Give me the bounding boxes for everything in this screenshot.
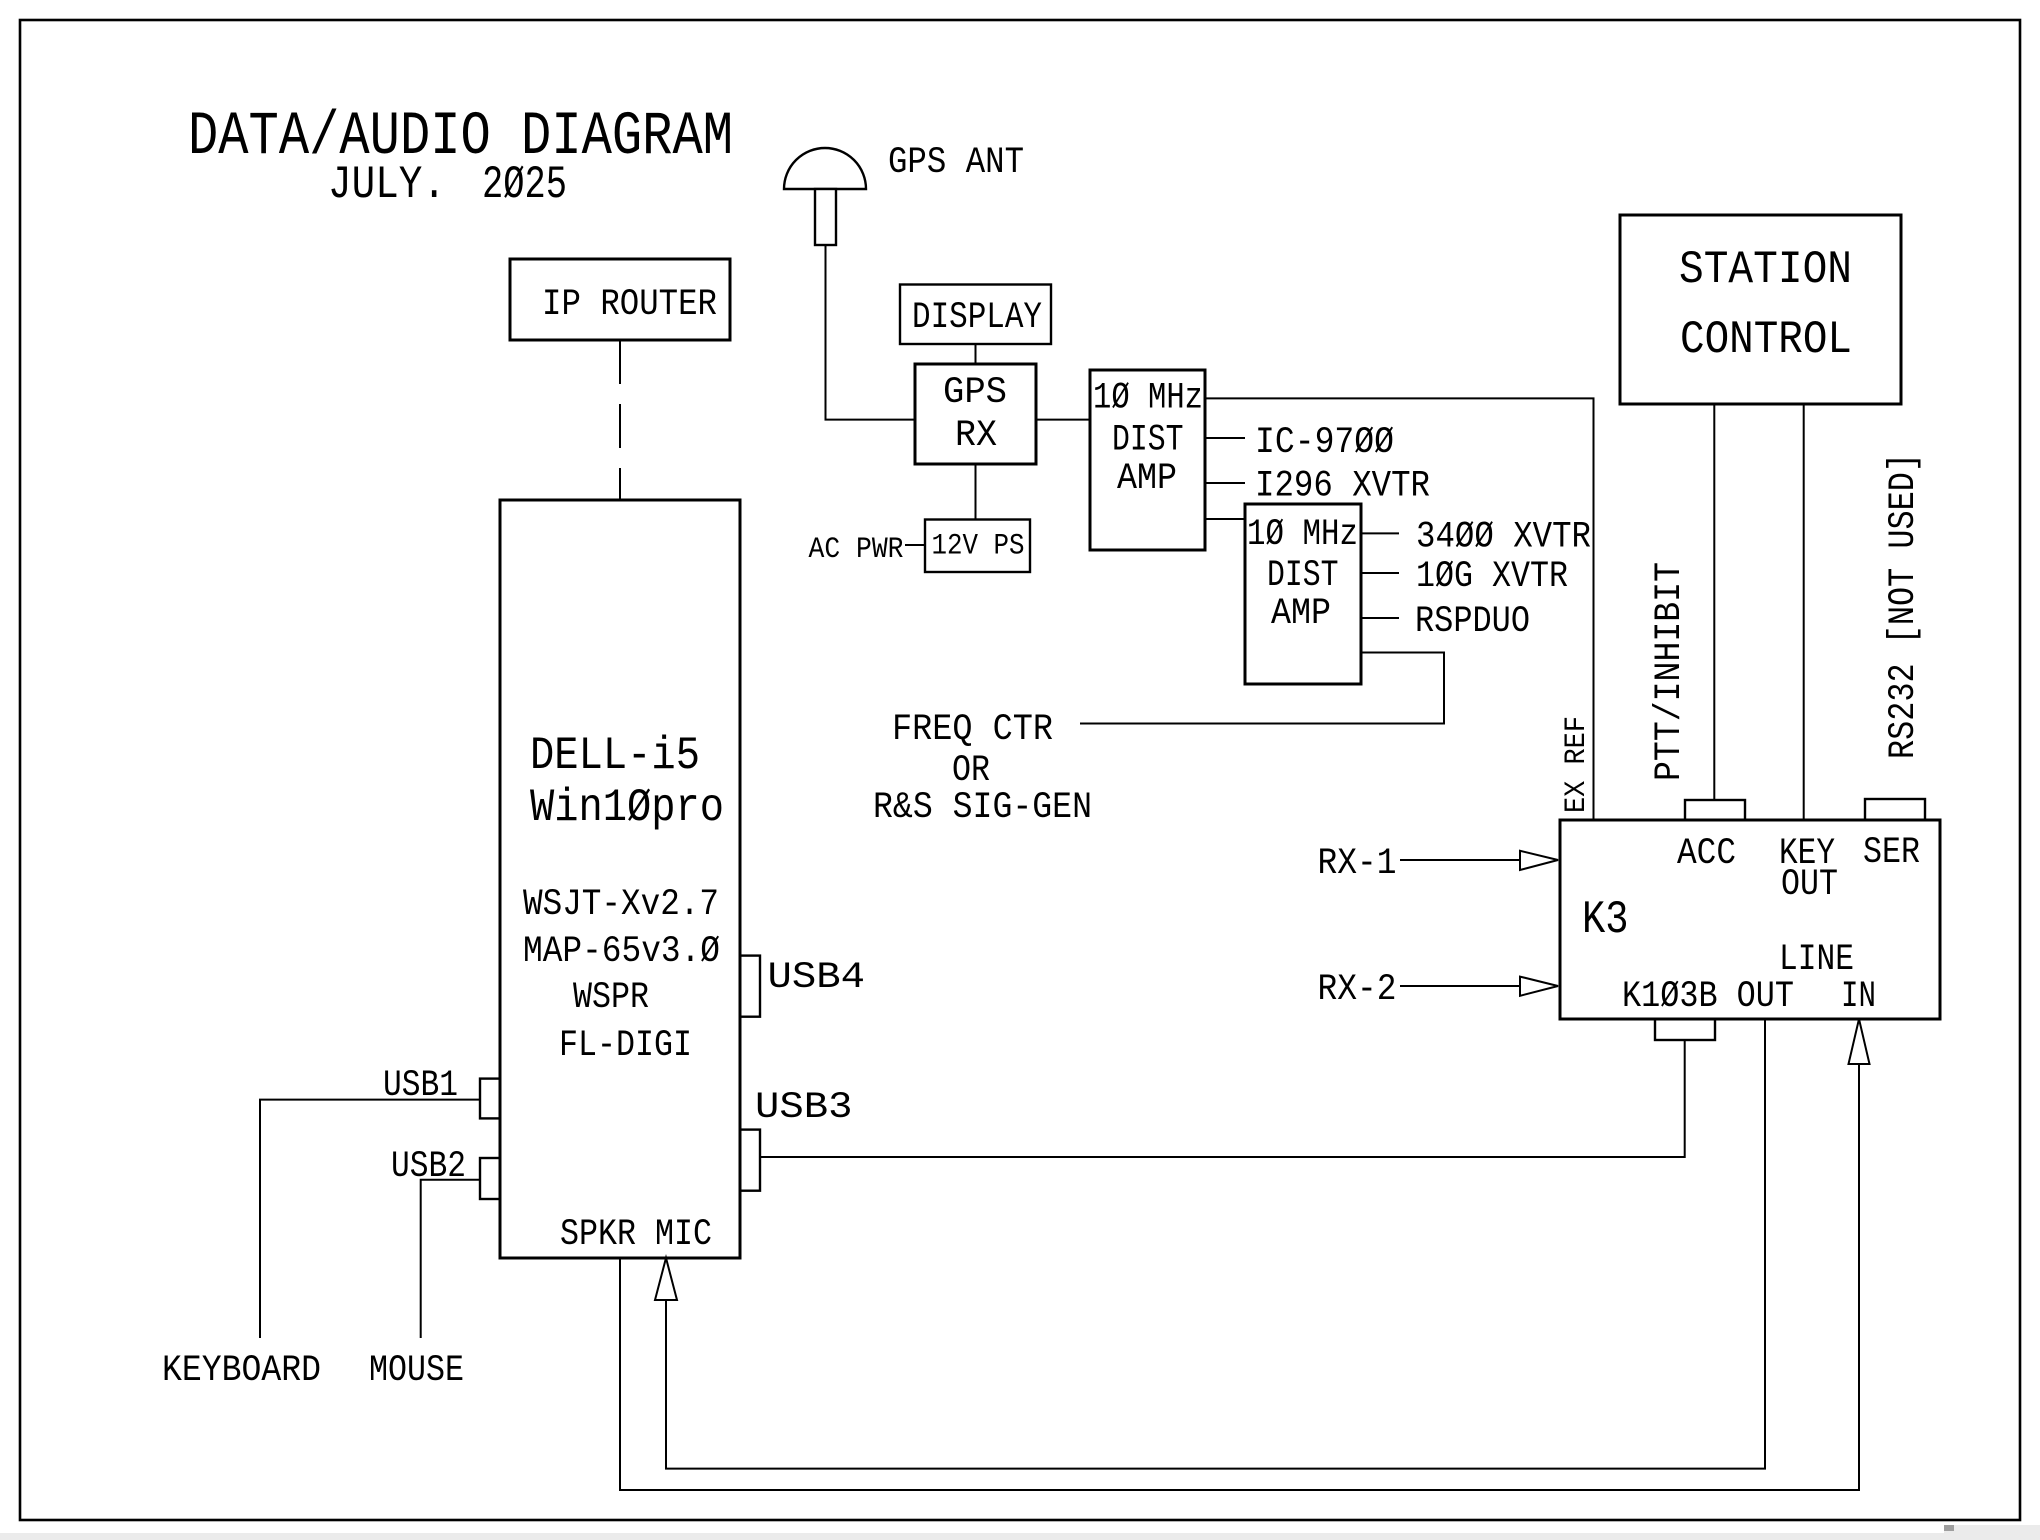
svg-text:DIST: DIST [1267,555,1339,597]
connector K103B on K3 bottom [1655,1019,1715,1040]
wire RX-2 to K3 [1400,985,1520,987]
svg-text:IC-97ØØ: IC-97ØØ [1255,422,1394,464]
box 12V PS [925,520,1030,573]
connector USB2 on DELL left [480,1158,500,1199]
wire stub I296 XVTR [1205,482,1245,484]
wire DISPLAY to GPS RX [975,344,977,364]
svg-text:K1Ø3B OUT: K1Ø3B OUT [1622,976,1794,1018]
scrollbar corner block [1944,1525,2040,1540]
box DELL computer [500,500,740,1258]
svg-text:AMP: AMP [1271,593,1331,635]
svg-text:RX-2: RX-2 [1318,969,1397,1011]
wire dist amp 1 to dist amp 2 [1205,518,1245,520]
svg-text:USB1: USB1 [383,1065,458,1107]
dashed wire IP ROUTER to DELL computer [619,340,621,500]
svg-text:GPS: GPS [943,372,1007,414]
svg-text:MAP-65v3.Ø: MAP-65v3.Ø [523,931,720,973]
wire STATION CONTROL to K3 ACC [1713,404,1715,800]
svg-text:USB4: USB4 [768,957,866,999]
wire dist amp 2 to freq counter [1080,653,1444,724]
svg-text:K3: K3 [1582,893,1629,946]
svg-text:RX: RX [955,415,997,457]
box STATION CONTROL [1620,215,1901,404]
wire GPS antenna to GPS RX [826,245,916,420]
svg-text:ACC: ACC [1677,833,1736,875]
svg-text:RS232 [NOT USED]: RS232 [NOT USED] [1883,453,1925,759]
svg-text:2Ø25: 2Ø25 [482,158,567,211]
svg-text:DATA/AUDIO DIAGRAM: DATA/AUDIO DIAGRAM [188,103,733,172]
svg-text:IN: IN [1841,976,1876,1018]
svg-text:1Ø MHz: 1Ø MHz [1247,514,1358,556]
svg-text:R&S SIG-GEN: R&S SIG-GEN [873,787,1092,829]
wire DELL SPKR to K3 LINE IN [620,1064,1859,1490]
wire USB3 to K103B connector [760,1040,1685,1157]
svg-text:EX REF: EX REF [1560,716,1594,813]
svg-text:FL-DIGI: FL-DIGI [559,1025,692,1067]
svg-text:RX-1: RX-1 [1318,843,1397,885]
svg-text:USB3: USB3 [755,1087,853,1129]
svg-text:STATION: STATION [1679,243,1852,296]
svg-text:USB2: USB2 [391,1146,466,1188]
arrow RX-2 into K3 [1520,977,1558,996]
connector ACC on K3 top [1685,800,1745,820]
svg-text:SPKR MIC: SPKR MIC [560,1214,712,1256]
wire K3 LINE OUT to DELL MIC [666,1019,1765,1469]
wire USB1 to KEYBOARD [260,1100,480,1338]
wire USB2 to MOUSE [421,1180,480,1338]
svg-text:IP ROUTER: IP ROUTER [542,284,717,326]
svg-text:OUT: OUT [1781,864,1838,906]
svg-text:LINE: LINE [1779,939,1854,981]
svg-text:DISPLAY: DISPLAY [912,297,1042,339]
wire dist amp 1 to K3 EX REF [1205,398,1594,820]
svg-text:AC PWR: AC PWR [809,533,904,567]
svg-text:OR: OR [952,750,990,792]
connector USB1 on DELL left [480,1079,500,1119]
arrow RX-1 into K3 [1520,851,1558,870]
GPS antenna dome symbol [784,148,866,245]
svg-text:DIST: DIST [1112,420,1184,462]
arrow SPKR into K3 LINE IN [1849,1019,1870,1064]
wire STATION CONTROL to K3 KEY OUT [1803,404,1805,820]
svg-text:RSPDUO: RSPDUO [1415,601,1530,643]
box GPS RX [915,364,1036,464]
scrollbar thumb remnant [1944,1525,1954,1531]
svg-text:WSPR: WSPR [573,977,649,1019]
box 10 MHz dist amp 2 [1245,504,1361,684]
svg-text:34ØØ XVTR: 34ØØ XVTR [1416,517,1591,559]
wire stub 3400 XVTR [1361,532,1399,534]
svg-text:JULY.: JULY. [328,158,446,211]
svg-text:MOUSE: MOUSE [369,1350,464,1392]
wire GPS RX to dist amp 1 [1036,419,1090,421]
svg-text:KEYBOARD: KEYBOARD [162,1350,321,1392]
svg-text:WSJT-Xv2.7: WSJT-Xv2.7 [523,884,719,926]
svg-text:FREQ CTR: FREQ CTR [892,709,1053,751]
svg-text:1Ø MHz: 1Ø MHz [1093,378,1203,420]
wire AC PWR to 12V PS [905,544,925,546]
svg-text:AMP: AMP [1117,458,1177,500]
box 10 MHz dist amp 1 [1090,370,1205,550]
box IP ROUTER [510,259,730,340]
svg-text:I296 XVTR: I296 XVTR [1255,466,1430,508]
box DISPLAY [900,285,1051,345]
wire stub IC-9700 [1205,437,1245,439]
scrollbar strip bottom [0,1533,2040,1540]
svg-text:Win1Øpro: Win1Øpro [530,781,724,834]
svg-text:PTT/INHIBIT: PTT/INHIBIT [1649,562,1691,781]
svg-text:DELL-i5: DELL-i5 [530,729,700,782]
wire stub 10G XVTR [1361,572,1399,574]
svg-text:1ØG XVTR: 1ØG XVTR [1416,556,1568,598]
connector USB4 on DELL right [740,956,760,1017]
box K3 transceiver [1560,820,1940,1019]
connector SER on K3 top [1865,799,1925,820]
svg-text:SER: SER [1863,832,1920,874]
wire stub RSPDUO [1361,617,1399,619]
svg-text:12V PS: 12V PS [932,530,1025,564]
svg-text:GPS ANT: GPS ANT [888,142,1024,184]
wire GPS RX to 12V PS [975,464,977,520]
arrow MIC into DELL [655,1258,677,1300]
wire RX-1 to K3 [1400,859,1520,861]
connector USB3 on DELL right [740,1130,760,1191]
svg-text:CONTROL: CONTROL [1680,313,1852,366]
